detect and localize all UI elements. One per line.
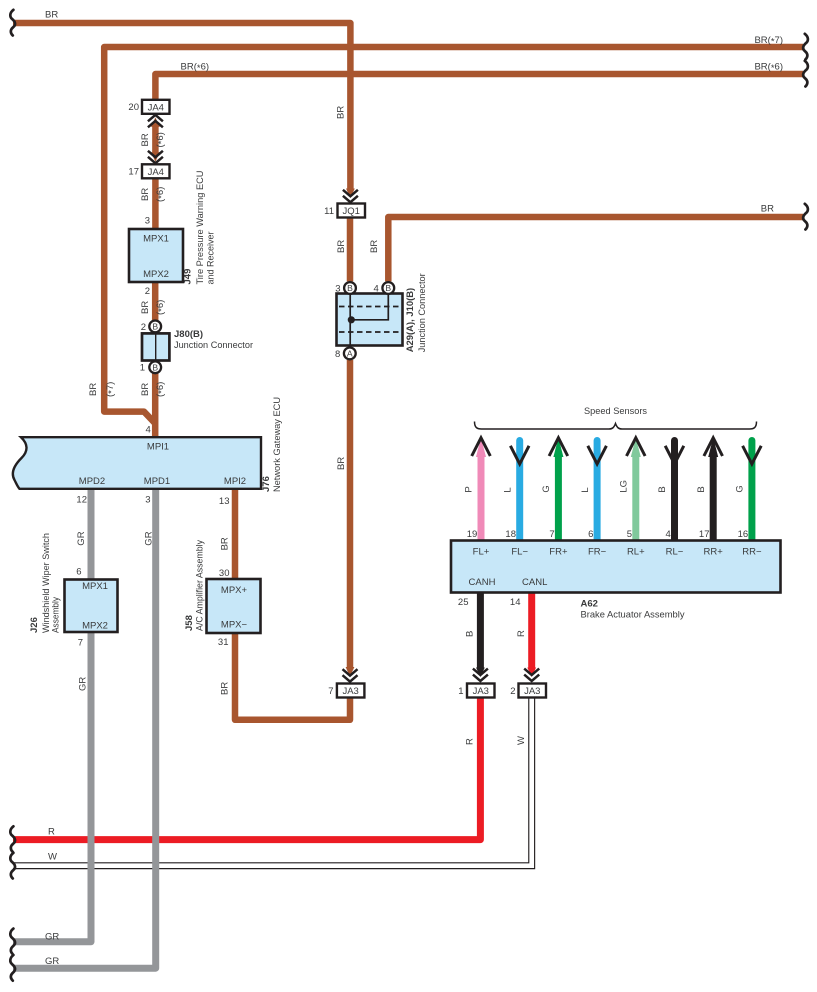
svg-text:FR−: FR− [588, 547, 607, 558]
svg-text:6: 6 [588, 529, 593, 540]
speed sensor wire FR- (L) [594, 441, 601, 541]
wire W from 2 JA3 to left edge (outline) [13, 697, 532, 866]
svg-text:(*6): (*6) [155, 300, 167, 315]
arrow tip into 2 JA3 (red) [527, 668, 536, 678]
speed sensors brace [475, 422, 757, 430]
svg-text:8: 8 [335, 349, 340, 360]
svg-text:BR: BR [336, 106, 347, 119]
svg-text:MPX2: MPX2 [82, 621, 108, 632]
svg-text:W: W [516, 736, 527, 745]
svg-text:2: 2 [141, 322, 146, 333]
svg-text:MPX2: MPX2 [143, 269, 169, 280]
svg-text:BR: BR [140, 188, 151, 201]
wire GR from J76 MPD2 pin 12 to J26 pin 6 [88, 489, 95, 580]
svg-text:MPX+: MPX+ [221, 585, 248, 596]
connector box JA4 pin 20 [142, 100, 170, 114]
svg-text:17: 17 [128, 167, 139, 178]
svg-text:CANL: CANL [522, 577, 547, 588]
svg-text:13: 13 [219, 496, 230, 507]
svg-text:B: B [465, 631, 476, 637]
svg-text:BR(*6): BR(*6) [181, 62, 210, 74]
junction connector J80(B) [142, 333, 169, 360]
svg-text:JA4: JA4 [148, 102, 164, 113]
svg-text:2: 2 [145, 286, 150, 297]
wire BR from 17 JA4 to J49 pin 3 [152, 178, 159, 229]
ECU box A62 Brake Actuator Assembly [451, 541, 781, 593]
svg-text:MPI1: MPI1 [147, 442, 169, 453]
svg-text:BR: BR [220, 682, 231, 695]
svg-text:(*6): (*6) [155, 132, 167, 147]
internal wire from pin 4 to junction dot in A29 [351, 294, 388, 320]
wire BR from left edge to JQ1 (vertical at x=350) [13, 23, 350, 189]
svg-text:G: G [735, 485, 746, 492]
svg-text:L: L [580, 487, 591, 492]
svg-text:RL+: RL+ [627, 547, 645, 558]
ECU box J26 Windshield Wiper Switch [65, 580, 118, 633]
connector arrow into 1 JA3 [473, 669, 488, 675]
svg-text:Junction Connector: Junction Connector [417, 273, 428, 352]
svg-text:4: 4 [666, 529, 671, 540]
wire R from A62 CANL pin 14 to 2 JA3 [528, 593, 535, 668]
svg-text:5: 5 [627, 529, 632, 540]
svg-text:Junction Connector: Junction Connector [174, 340, 253, 351]
svg-text:7: 7 [328, 686, 333, 697]
svg-text:BR(*7): BR(*7) [754, 35, 783, 47]
svg-text:A29(A), J10(B): A29(A), J10(B) [405, 288, 416, 353]
svg-text:LG: LG [619, 480, 630, 493]
pin circle B 4 of A29 [382, 282, 394, 294]
connector box 7 JA3 [337, 684, 365, 698]
svg-text:BR: BR [140, 133, 151, 146]
continuation squiggle right of BR wire [803, 204, 808, 230]
svg-text:R: R [465, 738, 476, 745]
svg-text:L: L [502, 487, 513, 492]
svg-text:BR: BR [761, 204, 774, 215]
wire BR(*7) from right edge down left column to MPI1 junction [104, 47, 803, 424]
ECU box J49 Tire Pressure Warning [129, 229, 183, 282]
svg-text:J49: J49 [183, 269, 194, 285]
svg-text:31: 31 [218, 637, 229, 648]
svg-text:RR+: RR+ [704, 547, 724, 558]
wire GR from J26 pin 7 down to left edge [13, 633, 91, 942]
wire BR from JQ1 down to A29 pin 3 [347, 217, 354, 282]
svg-text:(*6): (*6) [155, 187, 167, 202]
svg-text:B: B [347, 283, 353, 293]
svg-text:Speed Sensors: Speed Sensors [584, 406, 647, 417]
continuation squiggle right of BR(*6) wire [803, 61, 808, 87]
svg-text:GR: GR [45, 956, 59, 967]
junction dot in A29 [348, 316, 355, 323]
continuation squiggle left of W wire [10, 853, 15, 879]
wire R from 1 JA3 to left edge [13, 697, 480, 839]
connector arrow into JQ1 [343, 190, 358, 196]
svg-text:2: 2 [510, 686, 515, 697]
pin circle A 8 of A29 [344, 348, 356, 360]
svg-text:A: A [347, 349, 353, 359]
svg-text:JA3: JA3 [524, 686, 540, 697]
speed sensor wire FL+ (P) [478, 456, 485, 541]
svg-text:B: B [696, 486, 707, 492]
ECU box J76 Network Gateway [13, 437, 261, 489]
continuation squiggle left of BR wire [10, 10, 15, 36]
svg-text:A/C Amplifier Assembly: A/C Amplifier Assembly [195, 540, 206, 631]
svg-text:Network Gateway ECU: Network Gateway ECU [272, 397, 283, 492]
wire BR between 20 JA4 and 17 JA4 [152, 127, 159, 153]
svg-text:3: 3 [335, 283, 340, 294]
svg-text:17: 17 [699, 529, 710, 540]
svg-text:RR−: RR− [742, 547, 762, 558]
svg-text:MPX1: MPX1 [82, 581, 108, 592]
pin circle B 3 of A29 [344, 282, 356, 294]
wire BR from A29 pin 8 down to 7 JA3 [347, 360, 354, 667]
connector box 2 JA3 [519, 684, 547, 698]
internal wire from pin 3 to pin 8 in A29 [349, 294, 351, 347]
speed sensor wire RR+ (B) [710, 456, 717, 541]
svg-text:18: 18 [505, 529, 516, 540]
connector box JA4 pin 17 [142, 164, 170, 178]
svg-text:16: 16 [738, 529, 749, 540]
svg-text:J58: J58 [184, 615, 195, 631]
wire BR from J58 MPX- pin 31 to 7 JA3 [235, 633, 350, 720]
pin circle B 1 of J80 [149, 361, 161, 373]
svg-text:BR: BR [45, 10, 58, 21]
svg-text:GR: GR [45, 932, 59, 943]
continuation squiggle left of GR wire 2 [10, 955, 15, 981]
wire BR from right edge to A29 pin 4 [388, 217, 803, 281]
svg-text:JQ1: JQ1 [343, 206, 360, 217]
pin circle B 2 of J80 [149, 321, 161, 333]
svg-text:30: 30 [219, 568, 230, 579]
svg-text:25: 25 [458, 597, 469, 608]
svg-text:CANH: CANH [469, 577, 496, 588]
svg-text:4: 4 [374, 283, 379, 294]
svg-text:BR: BR [140, 301, 151, 314]
svg-text:FR+: FR+ [549, 547, 568, 558]
svg-text:B: B [152, 322, 158, 332]
svg-text:1: 1 [458, 686, 463, 697]
connector arrow into 7 JA3 [343, 669, 358, 675]
continuation squiggle left of GR wire 1 [10, 929, 15, 955]
arrow tip into JQ1 [346, 189, 355, 199]
svg-text:7: 7 [549, 529, 554, 540]
svg-text:BR: BR [140, 383, 151, 396]
wire GR from J76 MPD1 pin 3 down to left edge [13, 489, 156, 968]
connector arrow into 20 JA4 [148, 115, 163, 121]
connector arrow into 2 JA3 [524, 669, 539, 675]
arrow tip into 20 JA4 [151, 117, 160, 127]
svg-text:B: B [152, 363, 158, 373]
svg-text:BR: BR [220, 537, 231, 550]
svg-text:BR: BR [336, 457, 347, 470]
svg-text:GR: GR [76, 531, 87, 545]
wire BR(*6) from right edge to 20 JA4 [155, 74, 803, 100]
svg-text:FL+: FL+ [473, 547, 490, 558]
svg-text:JA4: JA4 [148, 167, 164, 178]
svg-text:GR: GR [78, 677, 89, 691]
svg-text:(*6): (*6) [155, 382, 167, 397]
arrow tip into 7 JA3 [346, 667, 355, 677]
svg-text:3: 3 [145, 216, 150, 227]
ECU box J58 A/C Amplifier [207, 579, 261, 633]
wire BR from J76 MPI2 pin 13 to J58 MPX+ pin 30 [232, 489, 239, 579]
svg-text:6: 6 [76, 567, 81, 578]
svg-text:A62: A62 [581, 599, 598, 610]
svg-text:FL−: FL− [511, 547, 528, 558]
svg-text:R: R [516, 630, 527, 637]
continuation squiggle left of R wire [10, 826, 15, 852]
svg-text:MPX−: MPX− [221, 620, 248, 631]
junction connector A29(A) J10(B) box [337, 294, 403, 346]
svg-text:MPI2: MPI2 [224, 476, 246, 487]
svg-text:4: 4 [146, 425, 151, 436]
svg-text:MPD1: MPD1 [144, 476, 170, 487]
svg-text:JA3: JA3 [473, 686, 489, 697]
svg-text:RL−: RL− [666, 547, 684, 558]
svg-text:Assembly: Assembly [51, 597, 62, 633]
svg-text:and Receiver: and Receiver [206, 232, 217, 285]
svg-text:19: 19 [467, 529, 478, 540]
svg-text:R: R [48, 827, 55, 838]
speed sensor wire RR- (G) [748, 441, 755, 541]
svg-text:W: W [48, 852, 57, 863]
svg-text:BR: BR [88, 383, 99, 396]
speed sensor wire RL+ (LG) [632, 456, 639, 541]
speed sensor wire RL- (B) [671, 441, 678, 541]
connector box 1 JA3 [467, 684, 495, 698]
svg-text:GR: GR [144, 531, 155, 545]
svg-text:11: 11 [324, 206, 334, 217]
svg-text:BR: BR [369, 240, 380, 253]
svg-text:20: 20 [128, 102, 139, 113]
svg-text:J26: J26 [29, 617, 40, 633]
arrow tip into 1 JA3 (black) [476, 668, 485, 678]
speed sensor wire FL- (L) [516, 441, 523, 541]
svg-text:Tire Pressure Warning ECU: Tire Pressure Warning ECU [195, 170, 206, 284]
wire BR from J49 pin 2 to junction B circle [152, 282, 159, 321]
connector box JQ1 pin 11 [338, 204, 366, 218]
svg-text:MPX1: MPX1 [143, 234, 169, 245]
svg-text:BR(*6): BR(*6) [754, 62, 783, 74]
svg-text:B: B [385, 283, 391, 293]
svg-text:MPD2: MPD2 [79, 476, 105, 487]
svg-text:14: 14 [510, 597, 521, 608]
svg-text:3: 3 [145, 495, 150, 506]
svg-text:G: G [541, 485, 552, 492]
svg-text:J80(B): J80(B) [174, 329, 203, 340]
wire BR from J80 B circle to J76 MPI1 pin 4 [152, 373, 159, 437]
svg-text:J76: J76 [261, 476, 272, 492]
arrow tip into 17 JA4 [151, 152, 160, 162]
wire B from A62 CANH pin 25 to 1 JA3 [477, 593, 484, 668]
svg-text:P: P [464, 486, 475, 492]
svg-text:JA3: JA3 [342, 686, 358, 697]
connector arrow into 17 JA4 [148, 151, 163, 157]
svg-text:B: B [657, 486, 668, 492]
svg-text:7: 7 [78, 638, 83, 649]
continuation squiggle right of BR(*7) wire [803, 34, 808, 60]
svg-text:1: 1 [140, 363, 145, 374]
svg-text:12: 12 [76, 495, 87, 506]
svg-text:(*7): (*7) [105, 382, 117, 397]
speed sensor wire FR+ (G) [555, 456, 562, 541]
svg-text:Brake Actuator Assembly: Brake Actuator Assembly [581, 610, 685, 621]
svg-text:BR: BR [336, 240, 347, 253]
